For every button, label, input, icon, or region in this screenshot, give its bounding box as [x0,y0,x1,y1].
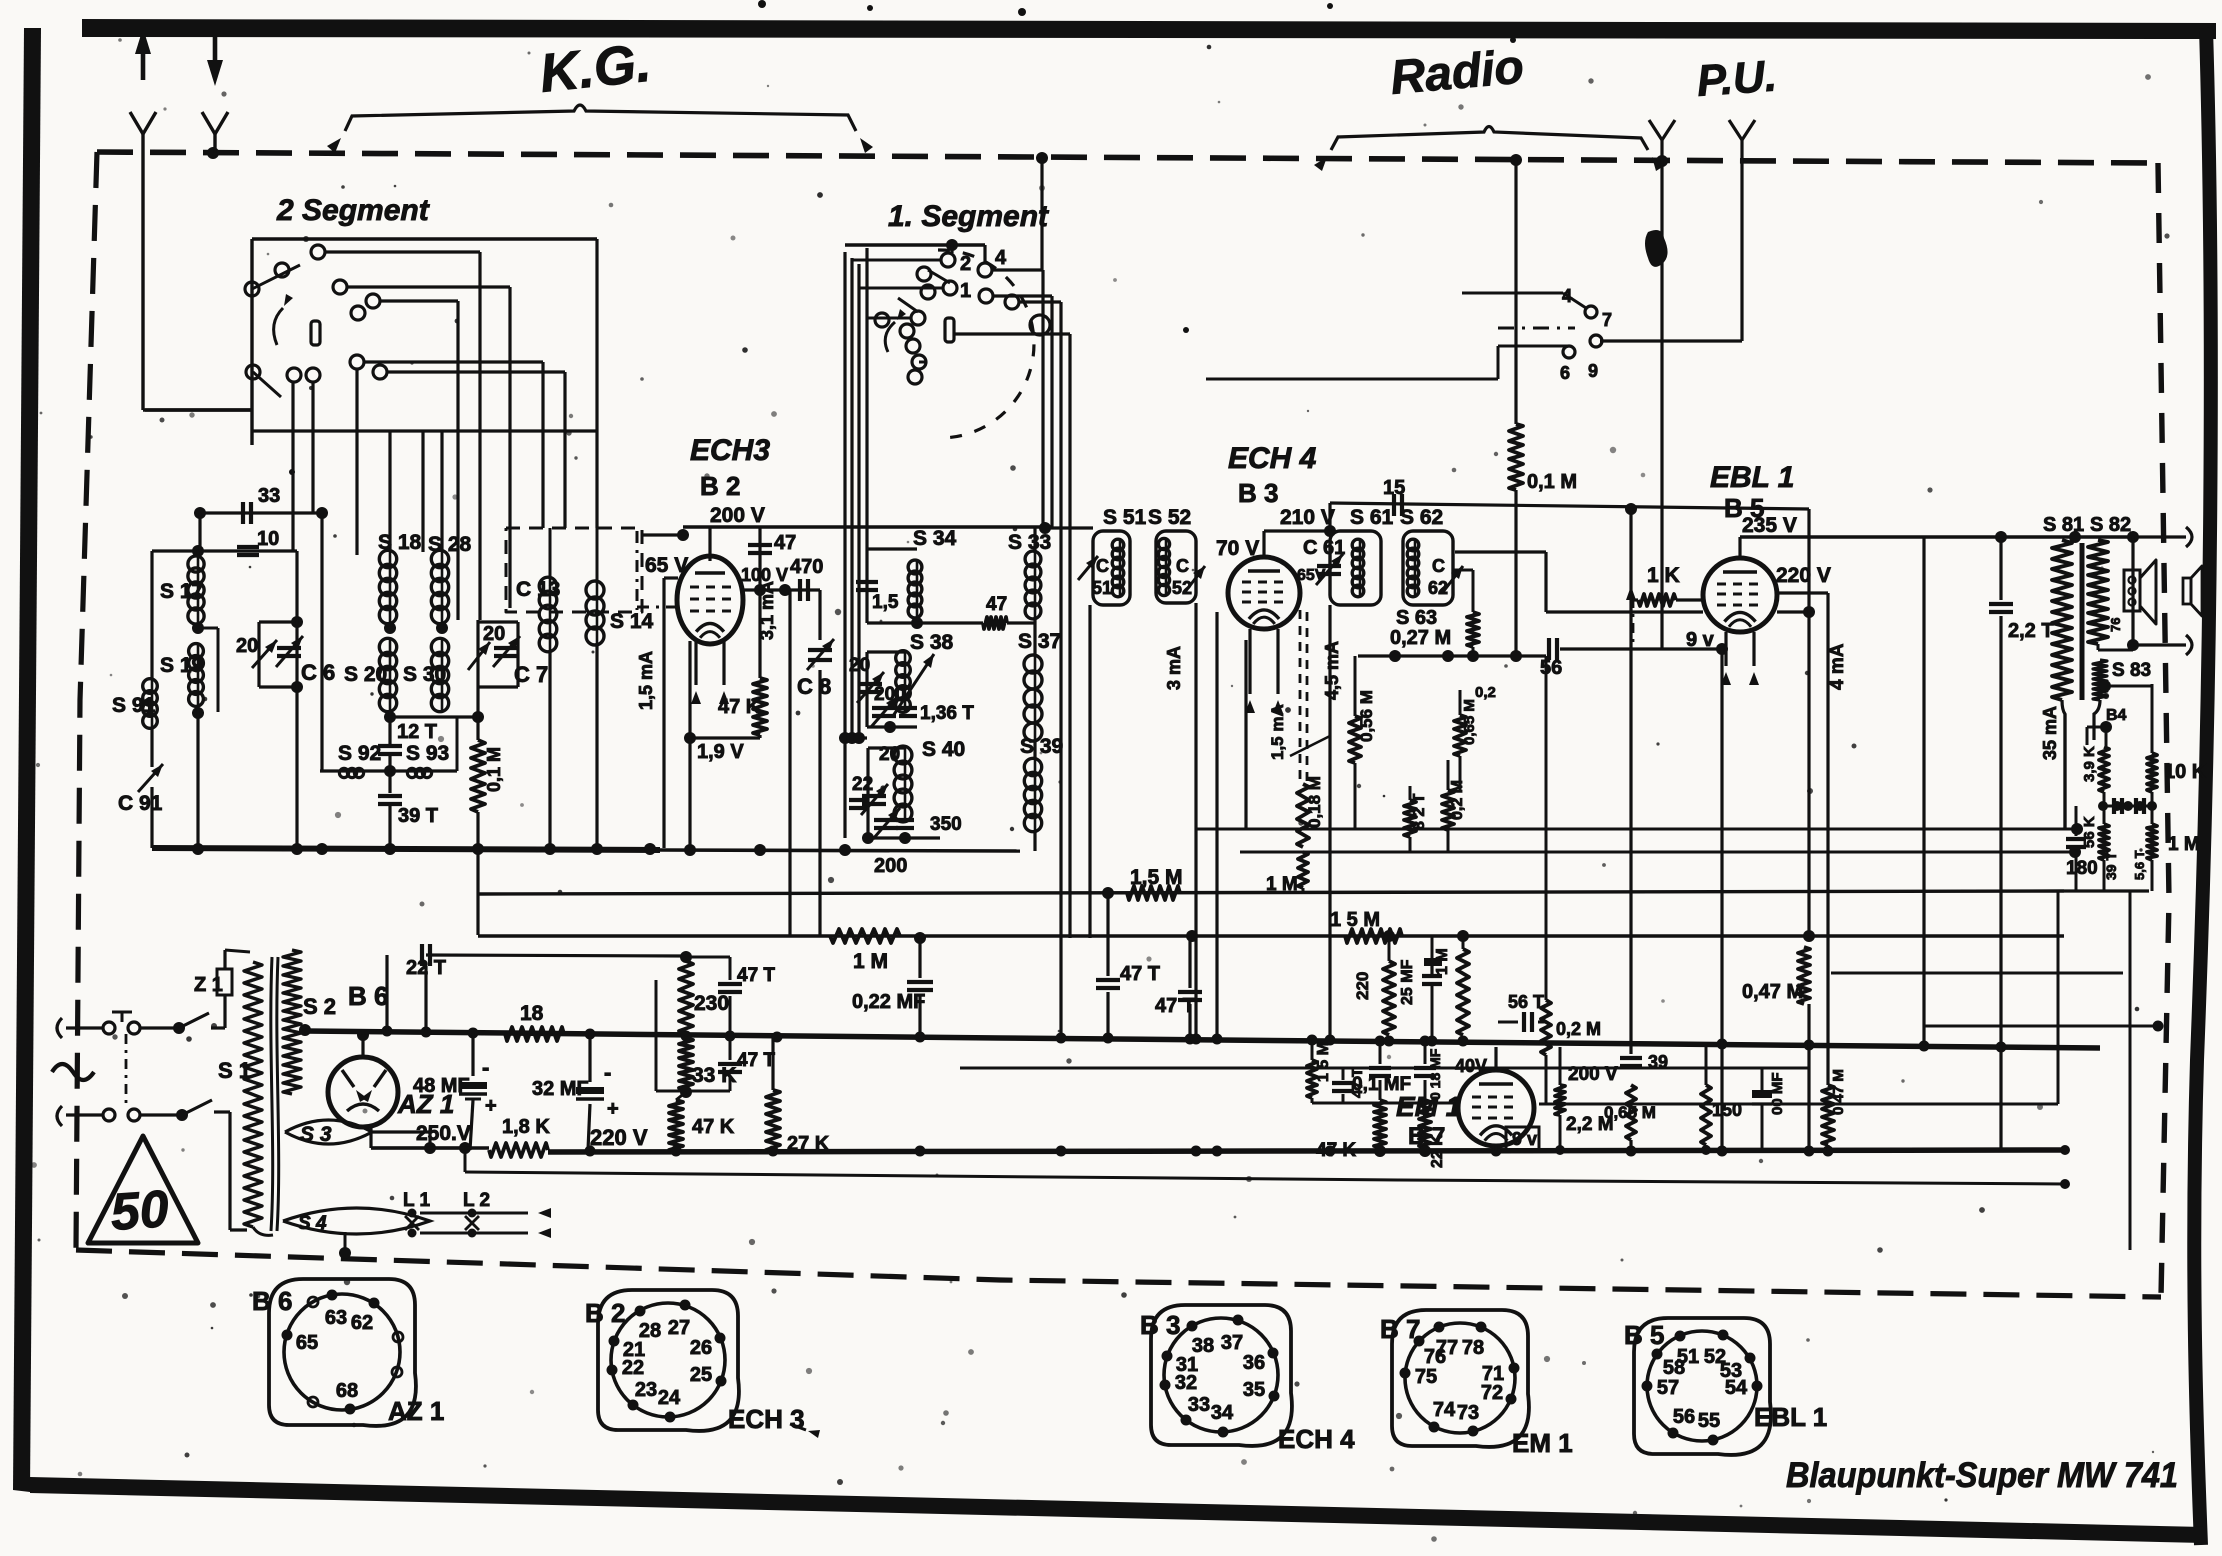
svg-text:65: 65 [296,1332,318,1354]
svg-text:1 M: 1 M [853,950,888,973]
svg-text:32: 32 [1175,1372,1197,1394]
svg-text:1: 1 [960,280,971,302]
svg-text:1,5 M: 1,5 M [1130,866,1183,889]
svg-text:51: 51 [1092,578,1112,598]
svg-text:2 Segment: 2 Segment [276,194,431,227]
svg-text:39 T: 39 T [398,805,438,827]
svg-text:S 38: S 38 [910,631,954,654]
svg-text:10: 10 [257,528,279,550]
svg-text:4,5 mA: 4,5 mA [1322,641,1342,700]
svg-text:S 39: S 39 [1020,735,1063,758]
svg-text:62: 62 [351,1312,373,1334]
svg-text:39: 39 [1648,1052,1668,1072]
svg-text:40V: 40V [1455,1056,1487,1076]
svg-text:B 3: B 3 [1238,478,1278,508]
svg-text:B 7: B 7 [1408,1123,1445,1150]
svg-text:1,9 V: 1,9 V [697,741,744,763]
svg-text:B 7: B 7 [1380,1314,1420,1344]
svg-text:35: 35 [1243,1379,1265,1401]
svg-text:S 28: S 28 [428,533,472,556]
svg-text:0,47 M: 0,47 M [1742,981,1803,1003]
svg-text:25 MF: 25 MF [1399,959,1416,1005]
svg-text:ECH 4: ECH 4 [1278,1424,1355,1454]
svg-text:0,22 MF: 0,22 MF [852,991,925,1013]
svg-text:9: 9 [1588,361,1598,381]
svg-text:Z 1: Z 1 [194,974,223,996]
svg-text:20: 20 [236,635,258,657]
svg-text:12 T: 12 T [397,721,437,743]
svg-text:37: 37 [1221,1332,1243,1354]
svg-text:235 V: 235 V [1742,514,1797,537]
svg-text:47: 47 [986,594,1007,615]
svg-text:210 V: 210 V [1280,506,1335,529]
svg-text:10 K: 10 K [2164,761,2207,783]
svg-text:+: + [607,1098,619,1120]
svg-text:C 7: C 7 [514,662,548,687]
svg-text:C: C [1176,556,1189,576]
svg-text:32 MF: 32 MF [532,1078,589,1100]
svg-text:1. Segment: 1. Segment [888,200,1050,233]
svg-text:20: 20 [879,744,900,765]
svg-text:EBL 1: EBL 1 [1710,461,1794,494]
svg-text:470: 470 [790,556,823,578]
svg-text:-: - [604,1060,611,1085]
svg-text:26: 26 [690,1337,712,1359]
svg-text:0,56 M: 0,56 M [1357,690,1376,742]
svg-text:3 mA: 3 mA [1164,646,1184,690]
svg-text:18: 18 [520,1002,544,1025]
svg-text:EM 1: EM 1 [1512,1428,1573,1458]
svg-text:9 v: 9 v [1512,1129,1537,1149]
svg-text:1 M: 1 M [1434,948,1451,975]
svg-text:S 92: S 92 [338,742,381,765]
svg-text:0,65 M: 0,65 M [1461,699,1478,745]
svg-text:EM 1: EM 1 [1396,1091,1461,1122]
svg-text:ECH 3: ECH 3 [728,1404,805,1434]
svg-text:74: 74 [1433,1399,1456,1421]
svg-text:S 34: S 34 [913,527,957,550]
svg-text:S 30: S 30 [403,663,446,686]
svg-text:47: 47 [774,532,796,554]
svg-text:B4: B4 [2106,707,2127,724]
svg-text:0,65 M: 0,65 M [1604,1103,1656,1122]
svg-text:0 47 M: 0 47 M [1830,1069,1847,1115]
svg-text:C: C [1432,556,1445,576]
svg-text:230: 230 [694,992,729,1015]
svg-text:57: 57 [1657,1377,1679,1399]
svg-text:47 K: 47 K [718,696,761,718]
svg-text:47 T: 47 T [737,965,775,986]
svg-text:S 91: S 91 [112,694,156,717]
svg-text:220 V: 220 V [590,1125,648,1150]
svg-text:24: 24 [658,1387,681,1409]
svg-text:33: 33 [258,485,280,507]
svg-text:C 6: C 6 [301,660,335,685]
svg-text:S 37: S 37 [1018,630,1061,653]
svg-text:25: 25 [690,1364,712,1386]
svg-text:S 1: S 1 [218,1058,251,1083]
svg-text:S 63: S 63 [1396,607,1437,629]
svg-text:B 6: B 6 [252,1286,292,1316]
svg-text:76: 76 [1424,1346,1446,1368]
svg-text:350: 350 [930,814,962,835]
svg-text:200 V: 200 V [1568,1064,1618,1085]
svg-text:7: 7 [1602,310,1612,330]
svg-text:220: 220 [1353,972,1372,1000]
svg-text:S 52: S 52 [1148,506,1191,529]
svg-text:76: 76 [2108,618,2123,632]
svg-text:S 19: S 19 [160,654,203,677]
svg-text:B 5: B 5 [1624,1320,1664,1350]
svg-text:56 K: 56 K [2081,816,2098,848]
svg-text:4: 4 [995,247,1007,269]
svg-text:200 V: 200 V [710,504,765,527]
svg-text:200: 200 [874,855,907,877]
svg-text:C: C [1096,556,1109,576]
svg-text:S 40: S 40 [922,738,965,761]
svg-text:S 20: S 20 [344,663,387,686]
svg-text:EBL 1: EBL 1 [1754,1402,1827,1432]
svg-text:78: 78 [1462,1337,1484,1359]
svg-text:1,5 mA: 1,5 mA [636,651,656,710]
svg-text:58: 58 [1663,1357,1685,1379]
svg-text:B 2: B 2 [585,1298,625,1328]
svg-text:15: 15 [1383,477,1405,499]
svg-text:S 4: S 4 [298,1213,327,1234]
svg-text:1 M: 1 M [2168,834,2200,855]
svg-text:8 2 T: 8 2 T [1411,793,1428,830]
svg-text:0,1 M: 0,1 M [1527,471,1577,493]
svg-text:L 1: L 1 [403,1190,431,1211]
svg-text:S 82: S 82 [2090,514,2131,536]
svg-text:C 13: C 13 [516,578,560,601]
svg-text:20: 20 [849,655,870,676]
svg-text:47 T: 47 T [737,1050,775,1071]
svg-text:220 V: 220 V [1776,564,1831,587]
svg-text:65V: 65V [1297,567,1326,584]
svg-text:56 T: 56 T [1508,992,1544,1012]
svg-text:0,2 M: 0,2 M [1449,780,1466,820]
svg-text:27: 27 [668,1317,690,1339]
svg-text:00 MF: 00 MF [1769,1072,1786,1115]
svg-text:36: 36 [1243,1352,1265,1374]
svg-text:56: 56 [1673,1406,1695,1428]
svg-text:72: 72 [1481,1382,1503,1404]
svg-text:S 33: S 33 [1008,531,1051,554]
svg-text:68: 68 [336,1380,358,1402]
svg-text:3,9 K: 3,9 K [2081,746,2098,782]
svg-text:47 T: 47 T [1155,995,1195,1017]
svg-text:B 6: B 6 [348,981,388,1011]
svg-text:ECH 4: ECH 4 [1228,442,1317,475]
svg-text:0,2 M: 0,2 M [1556,1019,1601,1039]
svg-text:4 mA: 4 mA [1827,643,1848,690]
svg-text:3,1 mA: 3,1 mA [757,581,777,640]
svg-text:0,18 M: 0,18 M [1305,776,1324,828]
svg-text:2,2 T: 2,2 T [2008,620,2054,642]
svg-text:1,8 K: 1,8 K [502,1116,550,1138]
svg-text:S 83: S 83 [2112,660,2151,681]
svg-text:Blaupunkt-Super MW 741: Blaupunkt-Super MW 741 [1786,1456,2178,1495]
svg-text:S 93: S 93 [406,742,449,765]
svg-text:250.V: 250.V [416,1122,471,1145]
svg-text:AZ 1: AZ 1 [388,1396,444,1426]
svg-text:150: 150 [1712,1100,1742,1120]
svg-text:L 2: L 2 [463,1190,490,1211]
svg-text:180: 180 [2066,858,2098,879]
svg-text:35 mA: 35 mA [2040,706,2060,760]
svg-text:S 61: S 61 [1350,506,1394,529]
svg-text:6: 6 [1560,363,1570,383]
svg-text:1 5 M: 1 5 M [1315,1042,1332,1082]
svg-text:+: + [485,1095,497,1117]
svg-text:34: 34 [1211,1402,1234,1424]
svg-text:50: 50 [109,1180,171,1242]
svg-text:S 18: S 18 [378,531,422,554]
svg-text:-: - [482,1055,489,1080]
svg-text:54: 54 [1725,1377,1748,1399]
svg-text:1 K: 1 K [1647,564,1680,587]
svg-text:P.U.: P.U. [1695,52,1778,106]
svg-text:22: 22 [852,774,873,795]
svg-text:0,2: 0,2 [1475,684,1496,701]
svg-text:65 V: 65 V [645,554,688,577]
svg-text:B 3: B 3 [1140,1310,1180,1340]
svg-text:48 MF: 48 MF [413,1075,470,1097]
svg-text:0,1 M: 0,1 M [484,747,504,792]
svg-text:56: 56 [1540,657,1562,679]
svg-text:0,27 M: 0,27 M [1390,627,1451,649]
svg-text:5,6 T: 5,6 T [2132,850,2147,880]
svg-text:1,5 mA: 1,5 mA [1268,704,1287,760]
svg-text:23: 23 [635,1379,657,1401]
svg-text:22: 22 [622,1357,644,1379]
svg-text:K.G.: K.G. [537,33,654,104]
svg-text:S 2: S 2 [303,994,336,1019]
svg-text:ECH3: ECH3 [690,434,770,467]
svg-text:S 14: S 14 [610,610,654,633]
svg-text:S 51: S 51 [1103,506,1147,529]
svg-text:63: 63 [325,1307,347,1329]
svg-text:73: 73 [1457,1402,1479,1424]
svg-text:55: 55 [1698,1410,1720,1432]
svg-text:47 K: 47 K [692,1116,735,1138]
svg-text:1,36 T: 1,36 T [920,703,974,724]
svg-text:75: 75 [1415,1366,1437,1388]
svg-text:70 V: 70 V [1216,537,1259,560]
svg-text:1,5: 1,5 [872,592,899,613]
svg-text:47 T: 47 T [1120,963,1160,985]
svg-text:S 62: S 62 [1400,506,1443,529]
svg-text:C 8: C 8 [797,674,831,699]
svg-text:S 3: S 3 [300,1123,332,1146]
svg-text:33: 33 [1188,1394,1210,1416]
svg-text:S 17: S 17 [160,580,203,603]
svg-text:20: 20 [483,623,505,645]
svg-text:B 2: B 2 [700,471,740,501]
svg-text:C 91: C 91 [118,792,163,815]
svg-text:1 5 M: 1 5 M [1330,909,1380,931]
svg-text:C 61: C 61 [1303,537,1345,559]
